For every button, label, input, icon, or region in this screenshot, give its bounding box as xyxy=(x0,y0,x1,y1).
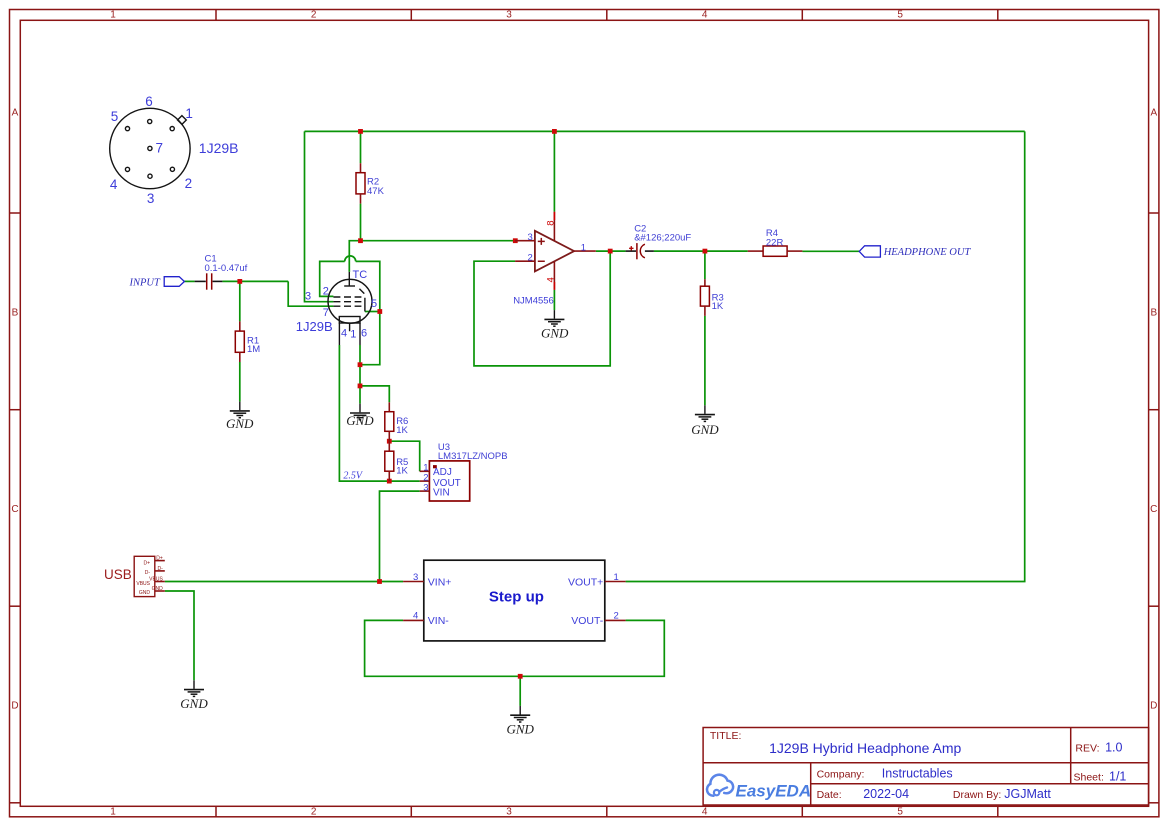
svg-text:GND: GND xyxy=(226,416,254,431)
wire R3 top xyxy=(704,251,706,279)
junction R6 R5 ADJ node xyxy=(387,439,392,444)
svg-text:2: 2 xyxy=(323,286,329,298)
svg-text:D: D xyxy=(11,701,18,712)
wire pin 5 down to pin 6 net xyxy=(360,312,380,365)
svg-text:2: 2 xyxy=(311,807,317,818)
junction tube pin 5 xyxy=(377,309,382,314)
svg-text:VBUS: VBUS xyxy=(149,577,163,583)
junction C2 R3 node xyxy=(703,249,708,254)
resistor R3 xyxy=(700,279,723,316)
wire op-amp pin 4 to ground xyxy=(553,290,555,310)
wire U3 VIN to USB VBUS net xyxy=(380,491,420,581)
capacitor C2 xyxy=(626,223,692,259)
ground under R3 xyxy=(691,405,719,437)
svg-text:1J29B: 1J29B xyxy=(199,140,239,156)
wire tube pin 6 to ground xyxy=(359,345,361,404)
svg-text:B: B xyxy=(1150,308,1157,319)
svg-text:A: A xyxy=(1150,108,1157,119)
svg-text:1: 1 xyxy=(614,572,619,583)
svg-text:0.1-0.47uf: 0.1-0.47uf xyxy=(205,263,248,274)
svg-text:22R: 22R xyxy=(766,237,784,248)
svg-text:3: 3 xyxy=(506,807,512,818)
svg-text:B: B xyxy=(12,308,19,319)
svg-text:8: 8 xyxy=(546,221,557,226)
svg-text:TITLE:: TITLE: xyxy=(710,730,742,742)
svg-text:USB: USB xyxy=(104,567,132,582)
svg-text:GND: GND xyxy=(152,586,164,592)
svg-text:TC: TC xyxy=(353,269,368,281)
wire to tube pin 7 xyxy=(288,281,333,306)
regulator U3 LM317LZ/NOPB xyxy=(420,442,508,501)
junction op-amp pin 3 xyxy=(513,238,518,243)
svg-text:INPUT: INPUT xyxy=(129,277,161,288)
svg-text:3: 3 xyxy=(506,10,512,21)
svg-text:4: 4 xyxy=(110,177,118,192)
wire C2 to R3 node and R4 xyxy=(654,250,748,252)
svg-text:3: 3 xyxy=(305,291,311,303)
resistor R1 xyxy=(235,321,260,362)
wire tube pin 4 heater 2.5V run xyxy=(339,345,419,481)
svg-text:47K: 47K xyxy=(367,186,385,197)
wire VOUT- ground tap xyxy=(519,676,521,706)
svg-text:GND: GND xyxy=(541,325,569,340)
resistor R2 xyxy=(356,163,385,203)
wire tube pin 2 loop to pin 5 xyxy=(320,261,345,296)
svg-text:Sheet:: Sheet: xyxy=(1074,772,1104,784)
svg-text:Drawn By:: Drawn By: xyxy=(953,789,1001,801)
svg-text:Date:: Date: xyxy=(817,789,842,801)
ground under USB xyxy=(180,680,208,711)
svg-text:NJM4556: NJM4556 xyxy=(513,295,554,306)
svg-text:REV:: REV: xyxy=(1075,743,1099,755)
svg-text:1M: 1M xyxy=(247,344,260,355)
svg-text:GND: GND xyxy=(507,722,535,737)
svg-text:&#126;220uF: &#126;220uF xyxy=(634,232,691,243)
svg-text:LM317LZ/NOPB: LM317LZ/NOPB xyxy=(438,451,508,462)
svg-text:Step up: Step up xyxy=(489,589,544,606)
svg-text:VIN+: VIN+ xyxy=(428,576,452,588)
wire arc to pin 5 junction xyxy=(356,261,380,311)
wire R1 top xyxy=(239,281,241,321)
wire R2 top xyxy=(360,131,362,163)
wire anode node to tube top cap TC xyxy=(349,241,360,272)
junction op-amp output xyxy=(608,249,613,254)
svg-text:1: 1 xyxy=(185,106,193,121)
wire Step up VIN- to VOUT- loop xyxy=(365,620,665,676)
svg-text:4: 4 xyxy=(341,328,347,340)
svg-text:D-: D- xyxy=(158,566,164,572)
svg-text:EasyEDA: EasyEDA xyxy=(736,782,812,801)
wire R2 bottom to op-amp pin 3 xyxy=(361,204,516,241)
svg-text:A: A xyxy=(12,108,19,119)
vacuum tube 1J29B xyxy=(296,269,377,345)
svg-text:VOUT-: VOUT- xyxy=(571,615,604,627)
port INPUT xyxy=(129,277,185,289)
svg-text:7: 7 xyxy=(323,307,329,319)
junction pin 6 net xyxy=(358,362,363,367)
svg-text:4: 4 xyxy=(702,10,708,21)
svg-text:1.0: 1.0 xyxy=(1105,741,1122,755)
ground under tube xyxy=(346,404,374,429)
USB connector xyxy=(104,556,165,597)
wire op-amp feedback loop xyxy=(474,251,610,366)
ground under R1 xyxy=(226,402,254,431)
svg-text:2: 2 xyxy=(311,10,317,21)
svg-text:GND: GND xyxy=(346,413,374,428)
svg-text:GND: GND xyxy=(139,590,151,596)
svg-text:2: 2 xyxy=(528,253,533,264)
svg-text:VOUT+: VOUT+ xyxy=(568,576,603,588)
svg-text:4: 4 xyxy=(413,611,418,622)
svg-text:ADJ: ADJ xyxy=(433,467,452,478)
svg-text:3: 3 xyxy=(528,232,533,243)
svg-text:1: 1 xyxy=(350,329,356,341)
wire USB GND pin to ground xyxy=(165,591,194,680)
svg-text:1J29B Hybrid Headphone Amp: 1J29B Hybrid Headphone Amp xyxy=(769,740,961,756)
junction VBUS U3 VIN node xyxy=(377,579,382,584)
svg-text:D: D xyxy=(1150,701,1157,712)
EasyEDA logo xyxy=(707,775,811,801)
svg-text:2: 2 xyxy=(185,176,193,191)
wire hop arc over TC wire xyxy=(345,256,356,262)
svg-text:D-: D- xyxy=(145,570,151,576)
svg-text:2: 2 xyxy=(614,611,619,622)
svg-text:GND: GND xyxy=(180,696,208,711)
svg-text:C: C xyxy=(11,504,18,515)
junction VOUT- ground node xyxy=(518,674,523,679)
svg-text:1K: 1K xyxy=(396,425,408,436)
svg-text:D+: D+ xyxy=(143,560,150,566)
svg-text:VIN-: VIN- xyxy=(428,615,450,627)
svg-text:JGJMatt: JGJMatt xyxy=(1004,787,1051,801)
svg-text:D+: D+ xyxy=(156,556,163,562)
wire top supply bus xyxy=(305,130,1025,132)
svg-text:Instructables: Instructables xyxy=(882,766,953,780)
capacitor C1 xyxy=(195,254,248,290)
svg-text:5: 5 xyxy=(897,807,903,818)
svg-text:1K: 1K xyxy=(712,301,724,312)
svg-text:5: 5 xyxy=(111,109,119,124)
wire op-amp pin 8 supply xyxy=(553,131,555,211)
wire right supply drop to VOUT+ xyxy=(626,131,1025,581)
svg-text:1: 1 xyxy=(110,10,116,21)
ground under op-amp xyxy=(541,310,569,340)
junction R2 bottom node xyxy=(358,238,363,243)
wire ADJ node to U3 pin 1 xyxy=(389,441,419,471)
svg-text:1: 1 xyxy=(581,242,586,253)
tube socket diagram 1J29B xyxy=(110,94,239,206)
junction R5 2.5V node xyxy=(387,479,392,484)
svg-text:1K: 1K xyxy=(396,466,408,477)
junction bus R2 xyxy=(358,129,363,134)
op-amp NJM4556 xyxy=(513,212,596,306)
svg-text:1: 1 xyxy=(110,807,116,818)
svg-text:3: 3 xyxy=(147,191,155,206)
wire R1 bottom to ground xyxy=(239,362,241,402)
svg-text:C: C xyxy=(1150,504,1157,515)
junction bus pin8 xyxy=(552,129,557,134)
wire R4 to HEADPHONE OUT xyxy=(802,250,859,252)
junction ground R6 node xyxy=(358,384,363,389)
svg-text:7: 7 xyxy=(156,141,164,156)
title block xyxy=(703,728,1149,806)
svg-text:VIN: VIN xyxy=(433,487,450,498)
svg-text:5: 5 xyxy=(897,10,903,21)
svg-text:3: 3 xyxy=(423,483,428,494)
svg-text:GND: GND xyxy=(691,422,719,437)
svg-text:2.5V: 2.5V xyxy=(343,471,364,482)
wire left drop to tube pin 3 xyxy=(305,131,334,301)
wire USB VBUS to Step up VIN+ xyxy=(165,581,403,583)
svg-text:1/1: 1/1 xyxy=(1109,770,1126,784)
svg-text:6: 6 xyxy=(145,94,153,109)
junction C1 R1 node xyxy=(237,279,242,284)
svg-text:5: 5 xyxy=(371,298,377,310)
svg-text:Company:: Company: xyxy=(817,768,865,780)
wire C1 to R1 node and grid xyxy=(222,280,288,282)
resistor R5 xyxy=(385,441,409,481)
port HEADPHONE OUT xyxy=(859,246,971,258)
svg-text:2022-04: 2022-04 xyxy=(863,787,909,801)
svg-text:4: 4 xyxy=(546,277,557,282)
svg-text:4: 4 xyxy=(702,807,708,818)
svg-text:1J29B: 1J29B xyxy=(296,319,333,334)
ground under Step up xyxy=(507,706,535,737)
wire INPUT port to C1 xyxy=(184,280,194,282)
svg-text:3: 3 xyxy=(413,572,418,583)
svg-text:HEADPHONE OUT: HEADPHONE OUT xyxy=(883,247,972,258)
svg-text:6: 6 xyxy=(361,328,367,340)
wire op-amp output to C2 xyxy=(596,250,626,252)
resistor R6 xyxy=(385,402,409,441)
wire ground node to R6 xyxy=(360,386,389,402)
wire tube pin 5 anode hook xyxy=(365,311,380,313)
wire R3 bottom to ground xyxy=(704,316,706,405)
module Step up xyxy=(403,560,625,641)
resistor R4 xyxy=(748,228,803,256)
